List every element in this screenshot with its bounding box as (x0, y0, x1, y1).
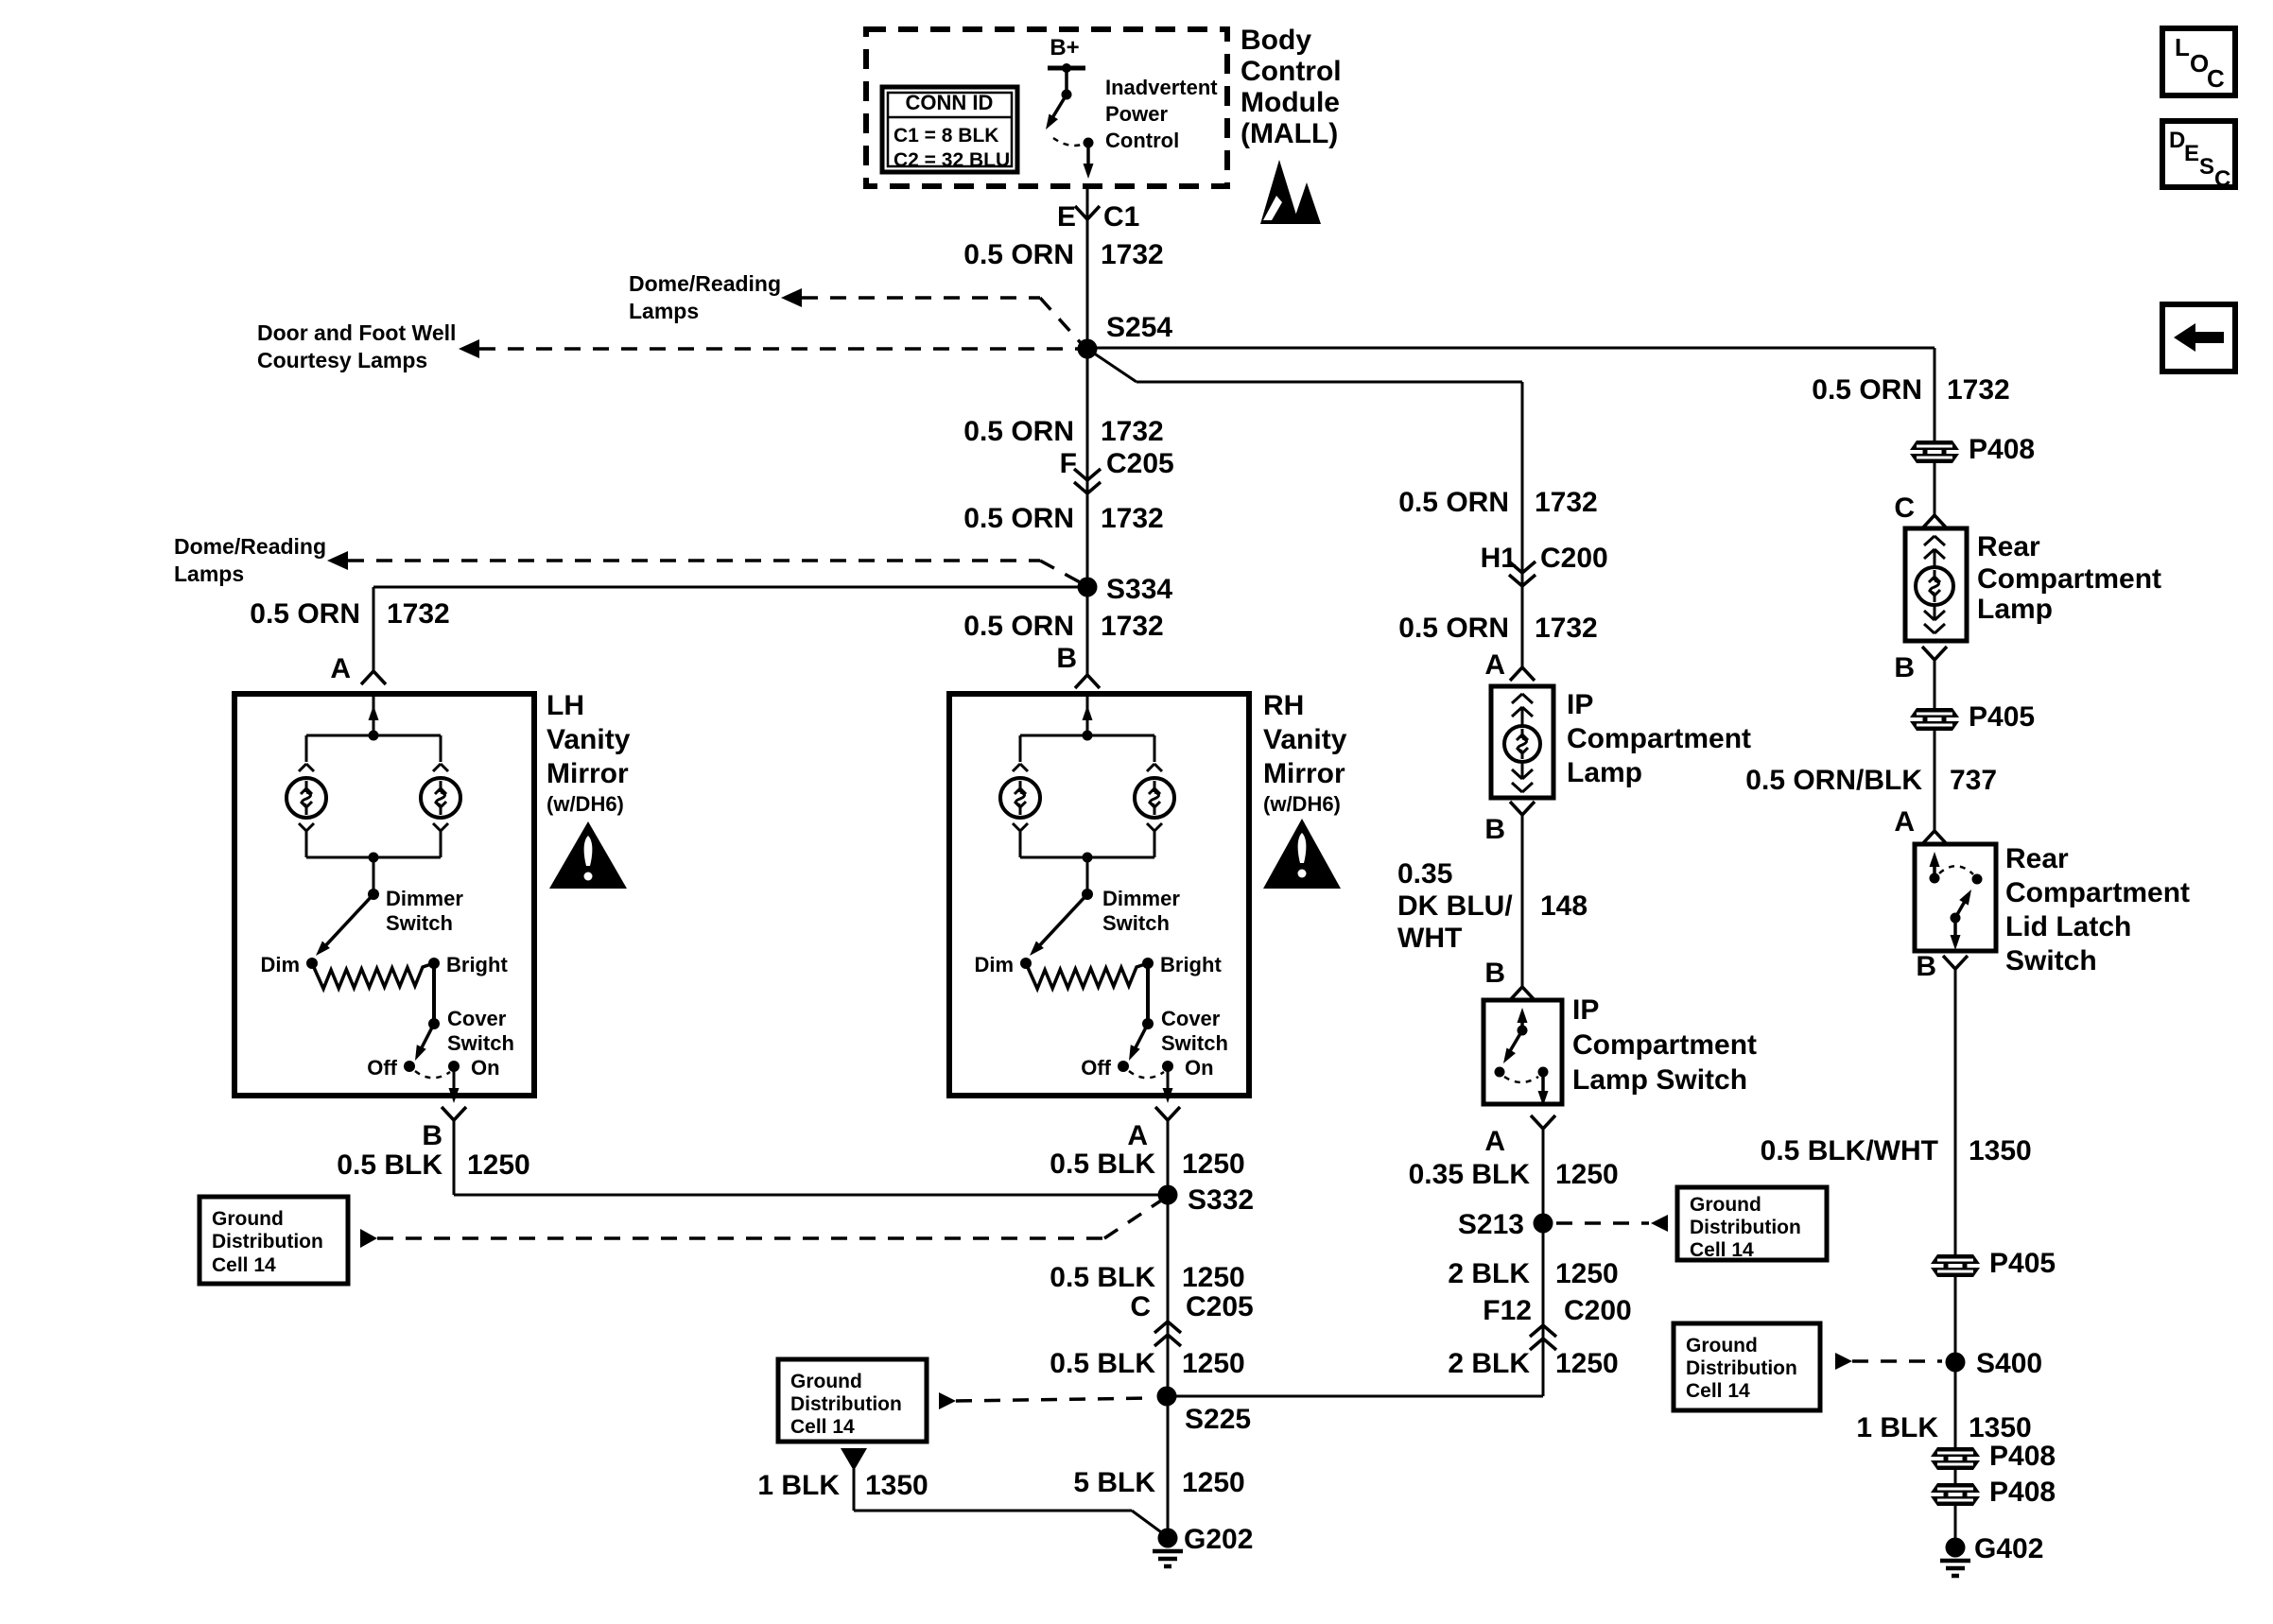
IP switch pivot dot (1518, 1026, 1528, 1036)
svg-text:Switch: Switch (386, 911, 453, 935)
lid latch exit connector fork (1943, 956, 1955, 969)
RH dimmer switch pivot (1082, 889, 1093, 900)
svg-text:Cover: Cover (447, 1007, 507, 1030)
svg-text:1 BLK: 1 BLK (1856, 1412, 1938, 1443)
wire S254 to rear compartment branch (1087, 347, 1935, 350)
svg-text:Inadvertent: Inadvertent (1105, 76, 1218, 99)
rear compartment lamp (1916, 567, 1953, 605)
wire 2 BLK 1250 S225 to C200 (1167, 1395, 1543, 1398)
splice S400 (1946, 1353, 1966, 1373)
svg-text:Distribution: Distribution (1686, 1357, 1797, 1379)
LH dimmer resistor (312, 963, 434, 989)
splice S254 (1078, 339, 1098, 359)
svg-text:Mirror: Mirror (1263, 758, 1345, 789)
svg-text:S: S (2199, 154, 2214, 180)
wire 0.5 ORN 1732 C200 to IP lamp (1521, 573, 1524, 667)
svg-text:2 BLK: 2 BLK (1448, 1348, 1530, 1379)
svg-text:Bright: Bright (1160, 953, 1222, 976)
svg-text:Dimmer: Dimmer (386, 887, 463, 910)
LH vanity lamp 1 terminal chevron (299, 764, 306, 771)
IP lamp internal terminals (bottom) (1521, 761, 1524, 779)
svg-text:0.5 ORN: 0.5 ORN (963, 416, 1074, 447)
svg-text:Dome/Reading: Dome/Reading (174, 534, 326, 559)
svg-text:0.35: 0.35 (1397, 858, 1452, 890)
svg-text:Power: Power (1105, 102, 1168, 126)
ground distribution arrow (S400) (1835, 1353, 1852, 1370)
LH vanity mirror splice node (top) (369, 731, 379, 741)
LH vanity mirror exit arrow (453, 1066, 456, 1095)
ESD sensitivity symbol (1260, 160, 1299, 224)
ground distribution feed triangle (1 BLK) (841, 1448, 867, 1471)
back arrow (2174, 323, 2224, 352)
svg-text:E: E (2184, 141, 2199, 166)
LH vanity lamp 1 lower terminal (299, 823, 306, 831)
B+ terminal bar (1048, 66, 1085, 71)
LH vanity mirror join node (369, 853, 379, 863)
RH vanity warning triangle (1263, 819, 1341, 889)
svg-text:1350: 1350 (1969, 1412, 2032, 1443)
svg-text:1250: 1250 (1182, 1348, 1245, 1379)
svg-text:F: F (1060, 448, 1077, 479)
LH vanity mirror box (234, 694, 534, 1096)
LH vanity mirror lamp branch wires (306, 734, 441, 737)
svg-text:S225: S225 (1185, 1404, 1251, 1435)
svg-text:1250: 1250 (1555, 1159, 1619, 1190)
lid latch switch common arrow (1933, 859, 1936, 878)
svg-text:148: 148 (1540, 890, 1588, 922)
RH vanity mirror entry arrow (1086, 696, 1089, 735)
RH dimmer switch arm (1036, 894, 1087, 949)
svg-text:C200: C200 (1540, 543, 1608, 574)
svg-text:1250: 1250 (1182, 1262, 1245, 1293)
RH vanity lamp 1 lower terminal (1013, 823, 1020, 831)
RH vanity mirror lamp join wires (1019, 831, 1022, 857)
LH Dim contact (306, 958, 318, 969)
CONN ID table outer box (882, 87, 1017, 172)
svg-text:Vanity: Vanity (547, 724, 631, 755)
inadvertent power control switch throw arc (1053, 138, 1084, 146)
svg-text:C200: C200 (1564, 1295, 1632, 1326)
svg-text:Control: Control (1241, 56, 1342, 87)
dashed link S213 to ground distribution (1556, 1221, 1649, 1225)
RH vanity mirror exit arrow (1167, 1066, 1170, 1095)
in-line connector C205 (lower) (1154, 1322, 1168, 1333)
svg-text:Switch: Switch (1161, 1031, 1228, 1055)
svg-text:S213: S213 (1458, 1209, 1524, 1240)
LH vanity exit connector fork (442, 1107, 454, 1120)
LH vanity mirror entry arrow (373, 696, 375, 735)
dashed link S225 to ground distribution (956, 1398, 1154, 1401)
wire P408 to G402 (1954, 1505, 1957, 1547)
in-line connector C200 (H1) (1509, 561, 1522, 573)
svg-text:(w/DH6): (w/DH6) (547, 792, 624, 816)
svg-text:D: D (2169, 128, 2185, 153)
RH vanity lamp 2 (1135, 778, 1174, 818)
LH vanity lamp 2 lower terminal (433, 823, 441, 831)
LH Bright contact (428, 958, 440, 969)
RH vanity lamp 1 terminal chevron (1013, 764, 1020, 771)
svg-text:1732: 1732 (1101, 503, 1164, 534)
B+ terminal dot (1062, 63, 1071, 73)
svg-text:Compartment: Compartment (2005, 877, 2190, 908)
svg-text:On: On (1185, 1056, 1214, 1080)
svg-text:Cell 14: Cell 14 (790, 1416, 855, 1438)
wire 1 BLK 1350 to G202 (853, 1469, 856, 1511)
dashed link S400 to ground distribution (1852, 1359, 1942, 1363)
svg-text:Cell 14: Cell 14 (212, 1254, 276, 1276)
LH vanity lamp 2 terminal chevron (433, 764, 441, 771)
pass-through grommet P405 (1910, 708, 1959, 717)
inadvertent power control output contact dot (1084, 138, 1094, 148)
svg-text:DK BLU/: DK BLU/ (1397, 890, 1513, 922)
svg-text:0.5 BLK: 0.5 BLK (337, 1149, 442, 1181)
IP switch common arrow (1520, 1015, 1524, 1030)
svg-text:On: On (471, 1056, 500, 1080)
RH dimmer resistor (1026, 963, 1148, 989)
svg-text:B: B (422, 1120, 442, 1151)
RH Dim contact (1020, 958, 1032, 969)
svg-text:0.5 BLK: 0.5 BLK (1050, 1348, 1155, 1379)
ground G402 (1946, 1538, 1966, 1558)
wire P408 to rear lamp (1934, 462, 1936, 515)
rear compartment lamp box (1905, 528, 1967, 641)
lid latch switch arm (1955, 898, 1967, 918)
RH Off contact (1118, 1061, 1129, 1072)
svg-text:Dome/Reading: Dome/Reading (629, 271, 781, 296)
svg-text:Lamps: Lamps (174, 561, 244, 586)
svg-text:S254: S254 (1106, 312, 1172, 343)
svg-text:Ground: Ground (1686, 1335, 1758, 1356)
in-line connector C205 (trunk) (1074, 469, 1087, 480)
splice S332 (1158, 1185, 1178, 1205)
svg-text:C205: C205 (1186, 1291, 1254, 1322)
svg-text:C1 = 8 BLK: C1 = 8 BLK (894, 125, 998, 147)
svg-text:LH: LH (547, 690, 584, 721)
svg-text:Mirror: Mirror (547, 758, 629, 789)
svg-text:C: C (2214, 166, 2230, 192)
svg-text:RH: RH (1263, 690, 1304, 721)
LH cover switch throw arc (415, 1071, 450, 1078)
RH vanity exit connector fork (1155, 1107, 1168, 1120)
wire S254 to IP compartment branch (1087, 349, 1136, 382)
CONN ID table inner box (888, 93, 1012, 166)
Ground Distribution Cell 14 box (S400) (1674, 1323, 1820, 1410)
svg-text:Ground: Ground (790, 1371, 862, 1392)
svg-text:Lamps: Lamps (629, 299, 699, 323)
svg-text:1732: 1732 (1535, 613, 1598, 644)
svg-text:0.5 BLK: 0.5 BLK (1050, 1262, 1155, 1293)
svg-text:A: A (1484, 649, 1505, 681)
svg-text:B: B (1484, 814, 1505, 845)
pass-through grommet P405 (lower) (1931, 1254, 1980, 1264)
svg-text:1250: 1250 (1182, 1149, 1245, 1180)
svg-text:S334: S334 (1106, 574, 1172, 605)
wire 2 BLK 1250 C200 to S213 (1542, 1129, 1545, 1325)
RH vanity lamp 2 lower terminal (1147, 823, 1154, 831)
RH vanity mirror join node (1083, 853, 1093, 863)
svg-text:B: B (1894, 652, 1915, 683)
svg-text:B+: B+ (1050, 35, 1079, 60)
wire rear lamp to P405 (1934, 660, 1936, 708)
wire B+ to switch pivot (1065, 68, 1068, 95)
svg-text:Rear: Rear (2005, 843, 2069, 874)
svg-text:1 BLK: 1 BLK (757, 1470, 840, 1501)
svg-text:P408: P408 (1969, 434, 2035, 465)
wire 0.5 BLK 1250 from RH vanity to S332 (1167, 1120, 1170, 1396)
RH cover switch throw arc (1129, 1071, 1164, 1078)
pass-through grommet P408 (third) (1931, 1483, 1980, 1493)
svg-text:Ground: Ground (1690, 1194, 1761, 1216)
svg-text:Dimmer: Dimmer (1102, 887, 1180, 910)
RH cover switch pivot (1142, 1018, 1154, 1029)
svg-text:C: C (1894, 492, 1915, 524)
svg-text:F12: F12 (1483, 1295, 1532, 1326)
ground distribution arrow (S225) (939, 1392, 956, 1409)
inadvertent power control switch pivot dot (1062, 90, 1072, 100)
svg-text:5 BLK: 5 BLK (1073, 1467, 1155, 1498)
svg-text:A: A (1484, 1126, 1505, 1157)
back arrow legend box (2162, 304, 2235, 371)
svg-text:A: A (330, 653, 351, 684)
svg-text:A: A (1894, 806, 1915, 838)
ground distribution arrow (S213) (1651, 1215, 1668, 1232)
svg-text:0.5 ORN: 0.5 ORN (250, 598, 360, 630)
svg-text:Body: Body (1241, 25, 1311, 56)
IP lamp entry connector fork (1510, 667, 1522, 681)
svg-text:B: B (1056, 643, 1077, 674)
LH dimmer switch pivot (368, 889, 379, 900)
rear lamp entry connector fork (1922, 515, 1935, 528)
IP switch open contact dot (1495, 1067, 1505, 1078)
svg-text:Dim: Dim (974, 953, 1014, 976)
wire P405 to S400 (1954, 1276, 1957, 1447)
LH Off contact (404, 1061, 415, 1072)
wire C205 to S225 to G202 (1167, 1396, 1170, 1538)
svg-text:Cover: Cover (1161, 1007, 1221, 1030)
wire 0.5 BLK/WHT 1350 (1954, 969, 1957, 1254)
svg-text:Courtesy Lamps: Courtesy Lamps (257, 348, 427, 372)
pass-through grommet P408 (second) (1931, 1447, 1980, 1457)
svg-text:C2 = 32 BLU: C2 = 32 BLU (894, 149, 1010, 171)
svg-text:E: E (1057, 201, 1076, 233)
svg-text:Lamp Switch: Lamp Switch (1572, 1064, 1747, 1096)
rear lamp internal terminals (top) (1924, 536, 1935, 545)
svg-text:Cell 14: Cell 14 (1690, 1239, 1754, 1261)
svg-text:G202: G202 (1184, 1524, 1253, 1555)
CONN ID table divider (888, 116, 1012, 119)
ground G202 (1158, 1529, 1178, 1548)
lid latch switch left contact dot (1930, 873, 1940, 884)
LH wire Bright to cover switch (432, 963, 436, 1024)
connector E C1 fork (1075, 206, 1087, 219)
svg-text:P405: P405 (1989, 1248, 2056, 1279)
svg-text:0.5 BLK/WHT: 0.5 BLK/WHT (1761, 1135, 1938, 1166)
svg-text:Switch: Switch (2005, 945, 2097, 976)
pass-through grommet P408 (1910, 441, 1959, 450)
LH vanity mirror lamp join wires (305, 831, 308, 857)
svg-text:Dim: Dim (260, 953, 300, 976)
svg-text:0.5 ORN: 0.5 ORN (1398, 487, 1509, 518)
BCM output arrow (1086, 143, 1090, 168)
svg-text:P408: P408 (1989, 1477, 2056, 1508)
svg-text:Cell 14: Cell 14 (1686, 1380, 1750, 1402)
dashed link S332 to ground distribution (377, 1236, 1104, 1240)
svg-text:1732: 1732 (1101, 611, 1164, 642)
svg-text:0.5 ORN/BLK: 0.5 ORN/BLK (1745, 765, 1922, 796)
in-line connector C200 (F12) (1530, 1325, 1543, 1337)
svg-text:IP: IP (1572, 994, 1599, 1026)
svg-text:IP: IP (1567, 689, 1593, 720)
svg-text:G402: G402 (1974, 1533, 2043, 1564)
IP switch throw arc (1504, 1077, 1538, 1082)
svg-text:Lamp: Lamp (1977, 594, 2053, 625)
svg-text:1732: 1732 (1535, 487, 1598, 518)
IP switch arm (1507, 1030, 1522, 1056)
LH cover switch arm (419, 1024, 434, 1053)
svg-text:1732: 1732 (1101, 239, 1164, 270)
svg-text:WHT: WHT (1397, 923, 1462, 954)
rear compartment lid latch switch box (1915, 844, 1996, 951)
svg-text:1250: 1250 (1555, 1258, 1619, 1289)
RH vanity lamp 2 terminal chevron (1147, 764, 1154, 771)
svg-text:1732: 1732 (387, 598, 450, 630)
svg-text:C1: C1 (1103, 201, 1139, 233)
LH On contact (448, 1061, 460, 1072)
svg-text:Distribution: Distribution (1690, 1217, 1801, 1238)
wire 0.5 ORN/BLK 737 (1934, 730, 1936, 831)
svg-text:B: B (1916, 951, 1936, 982)
Ground Distribution Cell 14 box (S225) (778, 1359, 927, 1442)
svg-text:2 BLK: 2 BLK (1448, 1258, 1530, 1289)
wire S254 to C205 (0.5 ORN 1732) (1086, 349, 1089, 677)
lid latch switch output arrow (1953, 918, 1957, 942)
svg-text:Compartment: Compartment (1567, 723, 1751, 754)
Ground Distribution Cell 14 box (S332) (200, 1197, 348, 1284)
splice S213 (1534, 1214, 1553, 1234)
lid latch switch right contact dot (1972, 874, 1983, 885)
svg-text:Bright: Bright (446, 953, 508, 976)
svg-text:1732: 1732 (1947, 374, 2010, 406)
RH vanity mirror splice node (top) (1083, 731, 1093, 741)
svg-text:Lamp: Lamp (1567, 757, 1642, 788)
RH vanity mirror box (949, 694, 1249, 1096)
LH vanity lamp 2 (421, 778, 460, 818)
IP switch output arrow (1541, 1072, 1545, 1097)
svg-text:1350: 1350 (1969, 1135, 2032, 1166)
IP lamp exit connector fork (1510, 802, 1522, 815)
ground distribution arrow (S332) (360, 1229, 377, 1248)
svg-text:0.5 ORN: 0.5 ORN (963, 239, 1074, 270)
IP compartment lamp (1504, 726, 1540, 762)
svg-text:Switch: Switch (447, 1031, 514, 1055)
rear lamp exit connector fork (1922, 647, 1935, 660)
RH vanity mirror lamp branch wires (1020, 734, 1154, 737)
RH wire Bright to cover switch (1146, 963, 1150, 1024)
svg-text:0.5 BLK: 0.5 BLK (1050, 1149, 1155, 1180)
RH Bright contact (1142, 958, 1154, 969)
svg-text:H1: H1 (1481, 543, 1517, 574)
wire between P408 grommets (1954, 1469, 1957, 1484)
svg-text:Module: Module (1241, 87, 1340, 118)
LOC legend box (2162, 28, 2235, 95)
svg-text:CONN ID: CONN ID (906, 91, 994, 114)
svg-text:Off: Off (1081, 1056, 1111, 1080)
svg-text:0.5 ORN: 0.5 ORN (1398, 613, 1509, 644)
RH On contact (1162, 1061, 1173, 1072)
rear lamp internal terminals (bottom) (1934, 603, 1936, 620)
RH vanity mirror wire to dimmer (1086, 857, 1089, 894)
svg-text:0.35 BLK: 0.35 BLK (1409, 1159, 1531, 1190)
DESC legend box (2162, 121, 2235, 187)
svg-text:Switch: Switch (1102, 911, 1170, 935)
RH vanity lamp 1 (1000, 778, 1040, 818)
svg-text:B: B (1484, 958, 1505, 989)
svg-text:C205: C205 (1106, 448, 1174, 479)
lid latch entry connector fork (1922, 831, 1935, 844)
wire S334 to LH vanity branch (373, 586, 1087, 589)
splice S334 (1078, 578, 1098, 597)
IP switch output contact dot (1538, 1067, 1549, 1078)
svg-text:C: C (1130, 1291, 1151, 1322)
svg-text:L: L (2175, 33, 2190, 61)
svg-text:S400: S400 (1976, 1348, 2042, 1379)
LH vanity mirror wire to dimmer (373, 857, 375, 894)
wire 0.5 BLK 1250 from LH vanity to S332 (453, 1120, 456, 1195)
svg-text:Off: Off (367, 1056, 397, 1080)
svg-text:Vanity: Vanity (1263, 724, 1347, 755)
inadvertent power control switch arm (1050, 95, 1067, 121)
IP compartment lamp switch box (1484, 1000, 1562, 1104)
RH cover switch arm (1133, 1024, 1148, 1053)
svg-text:1732: 1732 (1101, 416, 1164, 447)
svg-text:Ground: Ground (212, 1208, 284, 1230)
svg-text:P405: P405 (1969, 701, 2035, 733)
svg-text:(MALL): (MALL) (1241, 118, 1338, 149)
svg-text:Rear: Rear (1977, 531, 2040, 562)
svg-text:Door and Foot Well: Door and Foot Well (257, 320, 456, 345)
svg-text:Compartment: Compartment (1572, 1029, 1757, 1061)
svg-text:1250: 1250 (1555, 1348, 1619, 1379)
svg-text:Lid Latch: Lid Latch (2005, 911, 2131, 942)
svg-text:S332: S332 (1188, 1184, 1254, 1216)
svg-text:Distribution: Distribution (790, 1393, 902, 1415)
LH dimmer switch arm (322, 894, 373, 949)
lid latch switch throw arc (1939, 866, 1973, 874)
LH vanity warning triangle (549, 821, 627, 889)
svg-text:1250: 1250 (467, 1149, 530, 1181)
LH vanity entry connector fork (361, 671, 373, 684)
svg-text:A: A (1127, 1120, 1148, 1151)
svg-text:0.5 ORN: 0.5 ORN (963, 503, 1074, 534)
svg-text:0.5 ORN: 0.5 ORN (963, 611, 1074, 642)
lid latch switch lower pivot dot (1951, 913, 1961, 924)
IP compartment lamp box (1491, 686, 1553, 798)
svg-text:P408: P408 (1989, 1441, 2056, 1472)
wire 0.35 DK BLU/WHT 148 (1521, 815, 1524, 987)
svg-text:1350: 1350 (865, 1470, 928, 1501)
wire BCM to S254 (0.5 ORN 1732) (1086, 186, 1089, 349)
IP switch exit connector fork (1531, 1115, 1543, 1129)
svg-text:Distribution: Distribution (212, 1231, 323, 1253)
svg-text:C: C (2207, 64, 2225, 93)
svg-text:Control: Control (1105, 129, 1179, 152)
RH vanity entry connector fork (1075, 675, 1087, 688)
svg-text:737: 737 (1950, 765, 1997, 796)
Ground Distribution Cell 14 box (S213) (1677, 1187, 1827, 1260)
svg-text:(w/DH6): (w/DH6) (1263, 792, 1341, 816)
BCM dashed outline box (866, 29, 1227, 186)
LH vanity lamp 1 (286, 778, 326, 818)
